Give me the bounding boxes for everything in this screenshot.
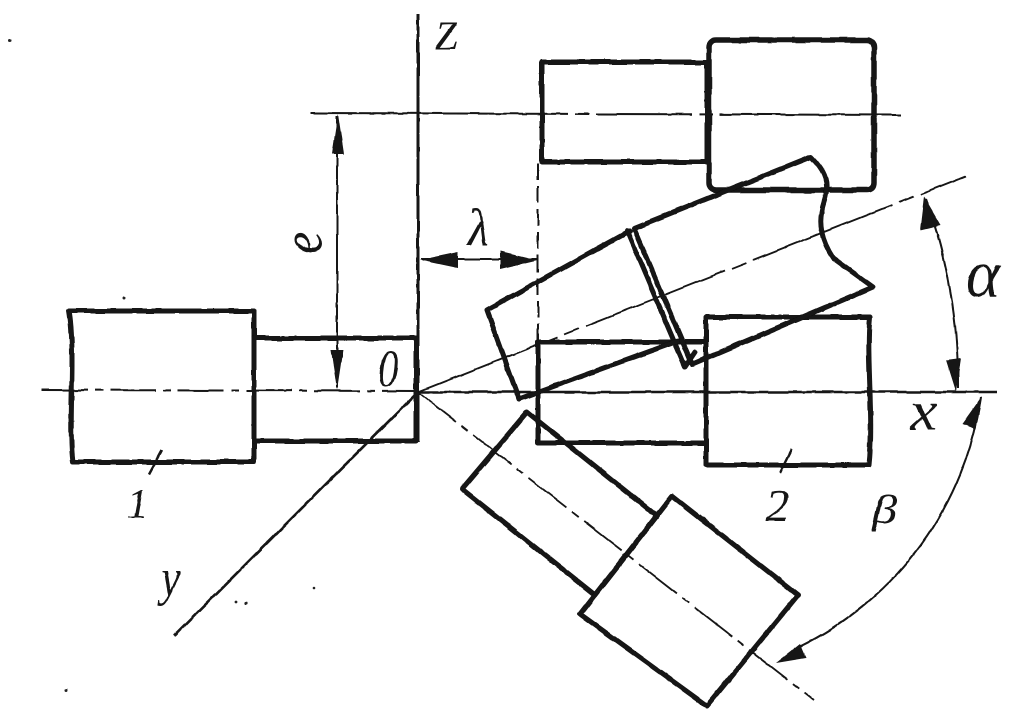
dimension lambda line (421, 258, 537, 260)
beta centerline (dash-dot) (418, 392, 814, 700)
axis X (416, 391, 997, 394)
svg-text:e: e (271, 232, 335, 254)
axis Z (417, 14, 420, 442)
alpha arc arrow bottom (946, 358, 961, 392)
dimension e line (336, 116, 338, 388)
shaft 2 small block (538, 342, 706, 443)
svg-text:2: 2 (766, 480, 789, 531)
alpha shaft small block bottom edge (519, 341, 678, 399)
alpha shaft big block (wavy right break edge) (634, 157, 873, 364)
alpha arc (926, 199, 958, 388)
beta arc (799, 397, 981, 647)
top centerline (dash-dot) (310, 113, 901, 115)
axis y (174, 392, 418, 636)
svg-text:x: x (909, 380, 937, 443)
svg-text:β: β (871, 487, 898, 532)
shaft 1 big block (wavy left break edge) (69, 311, 254, 462)
svg-text:y: y (157, 551, 180, 607)
beta shaft small block (462, 412, 657, 595)
alpha centerline (418, 176, 966, 392)
beta shaft big block (580, 496, 798, 706)
dimension lambda arrow left (420, 252, 458, 268)
beta arc arrow bottom (776, 644, 806, 663)
shaft 1 small block (254, 338, 416, 441)
dimension e arrow down (331, 350, 343, 390)
alpha arc arrow top (920, 196, 941, 230)
beta arc arrow top (962, 396, 982, 429)
svg-text:0: 0 (378, 340, 398, 398)
alpha shaft small block (487, 231, 695, 399)
svg-text:λ: λ (466, 198, 489, 256)
shaft 2 big block (wavy right break edge) (706, 317, 871, 465)
svg-text:α: α (966, 238, 1001, 312)
top shaft big block (709, 40, 874, 190)
dimension e arrow up (332, 114, 344, 154)
top shaft small block (542, 62, 707, 162)
projection dashed line at lambda (537, 163, 539, 343)
label 1 leader tick (149, 450, 162, 474)
dimension lambda arrow right (500, 251, 538, 269)
svg-text:Z: Z (435, 13, 458, 58)
label 2 leader tick (780, 449, 792, 473)
svg-text:1: 1 (127, 482, 148, 528)
centerline of shaft 1 (dash-dot) (42, 390, 418, 391)
scan specks (9, 39, 316, 692)
